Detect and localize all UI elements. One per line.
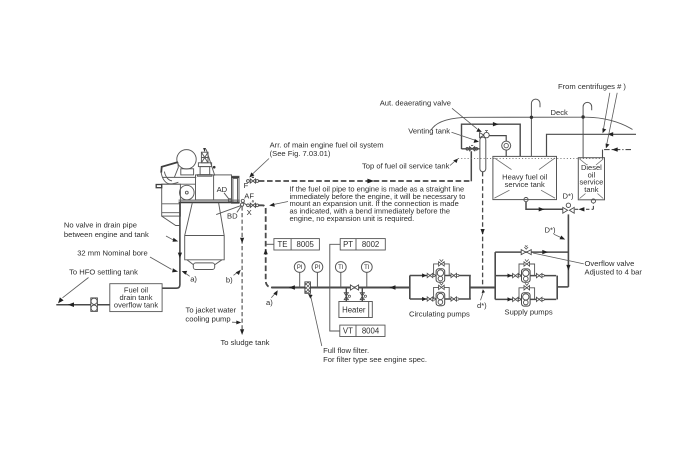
air scoop inner curve	[164, 172, 172, 181]
heater drop valve left	[344, 293, 348, 300]
svg-text:TE: TE	[278, 240, 288, 249]
svg-text:To jacket water: To jacket water	[186, 306, 237, 315]
BD leader	[237, 206, 241, 212]
fuel pipe stay	[206, 149, 215, 175]
svg-text:8004: 8004	[362, 327, 380, 336]
svg-text:8002: 8002	[362, 240, 379, 249]
overflow tank outlet pipe	[56, 304, 110, 306]
overflow valve spring	[524, 245, 528, 249]
32mm leader	[150, 257, 172, 269]
svg-text:Heater: Heater	[342, 305, 366, 314]
svg-text:Full flow filter.: Full flow filter.	[323, 346, 369, 355]
svg-text:a): a)	[266, 298, 273, 307]
svg-text:From centrifuges # ): From centrifuges # )	[558, 82, 626, 91]
arrow down on venting drain	[481, 229, 485, 235]
svg-text:BD: BD	[227, 211, 238, 220]
overflow leader line	[533, 253, 584, 264]
bell shoulder left	[187, 260, 193, 265]
HFO tank diagonals	[494, 158, 555, 198]
svg-text:Adjusted to 4 bar: Adjusted to 4 bar	[585, 267, 643, 276]
arrow left on DO filling line	[612, 147, 618, 151]
gauge ring on tank vent	[502, 141, 511, 150]
oil sump foot	[193, 263, 214, 270]
gauge TI 2	[361, 262, 372, 288]
svg-text:Top of fuel oil service tank: Top of fuel oil service tank	[362, 162, 450, 171]
bedplate band top	[179, 199, 240, 201]
no-valve leader	[166, 236, 173, 240]
settling leader	[63, 278, 89, 298]
svg-text:engine, no expansion unit is r: engine, no expansion unit is required.	[290, 214, 415, 223]
tower column	[200, 167, 210, 175]
svg-text:a): a)	[190, 275, 197, 284]
TE 8005 instrument box	[274, 239, 320, 250]
arr leader line	[253, 159, 270, 175]
heater drop pipe right	[361, 288, 363, 302]
right wall inner	[233, 178, 238, 202]
heavy fuel oil service tank	[493, 156, 557, 199]
svg-text:X: X	[247, 208, 252, 217]
DO filling line (dash-dot)	[603, 149, 632, 151]
ring to tank pipe	[505, 150, 507, 156]
jacket leader arrow	[236, 321, 241, 325]
arrow left on main line near circulating pumps	[389, 285, 395, 290]
arrow up on X riser	[264, 249, 268, 254]
a) leader arrow	[182, 271, 188, 275]
centrifuges leader 2	[607, 93, 617, 144]
deck junction dot 2	[581, 115, 584, 118]
diesel suction cross-over (dashed)	[575, 203, 594, 209]
junction leader line	[481, 292, 484, 300]
tank suction drop line	[567, 214, 569, 287]
aut. deaerating valve	[480, 131, 490, 138]
exhaust valve tower top cap	[203, 148, 206, 152]
tower base plate	[198, 175, 212, 177]
left lower slant	[162, 216, 181, 225]
svg-text:Deck: Deck	[551, 108, 569, 117]
deck junction dot 1	[530, 116, 533, 119]
gallery platform line	[162, 176, 196, 178]
AF to X link	[244, 202, 247, 205]
main fuel line to engine	[272, 287, 410, 289]
three-way valve D	[563, 207, 574, 213]
venting loop pipe	[462, 124, 521, 156]
svg-text:service tank: service tank	[505, 180, 545, 189]
right wall outer	[232, 176, 240, 203]
centrifuges leader 1 arrow	[602, 128, 606, 133]
expansion note paragraph	[290, 184, 466, 222]
svg-text:PI: PI	[315, 265, 321, 271]
main line between circulating and supply pumps	[470, 287, 495, 289]
svg-text:Circulating pumps: Circulating pumps	[409, 310, 470, 319]
svg-text:D*): D*)	[545, 225, 556, 234]
bedplate band bottom	[179, 201, 240, 203]
jacket leader	[232, 321, 237, 323]
paragraph leader arrow	[269, 203, 275, 207]
svg-text:Aut. deaerating valve: Aut. deaerating valve	[380, 98, 451, 107]
full flow filter (hatched)	[305, 282, 311, 293]
supply pump branch 2	[495, 283, 556, 306]
svg-text:b): b)	[226, 275, 233, 284]
deaerating valve outlet pipe	[489, 136, 506, 141]
arrow down on suction drop	[566, 265, 570, 271]
deaerating valve leader arrow	[476, 128, 482, 132]
tank level dotted line	[458, 158, 605, 160]
svg-text:32 mm Nominal bore: 32 mm Nominal bore	[77, 249, 147, 258]
pump end hub	[185, 191, 188, 194]
DO filling drop	[602, 150, 604, 158]
diagonal pipe to BD	[216, 206, 241, 215]
DO vent riser gooseneck	[583, 102, 592, 157]
arrow left on main line near filter	[289, 285, 295, 290]
svg-text:AF: AF	[244, 192, 254, 201]
engine main block	[196, 175, 232, 200]
air scoop top edge	[161, 162, 178, 173]
DO tank diagonals	[580, 159, 604, 199]
arrow left on HFO filling line	[607, 132, 613, 136]
top-of-tank leader arrow	[453, 159, 458, 164]
svg-text:between engine and tank: between engine and tank	[64, 230, 149, 239]
svg-text:PT: PT	[343, 240, 353, 249]
HFO vent riser gooseneck	[531, 99, 540, 156]
no-valve leader arrow	[173, 238, 179, 242]
exhaust valve tower body	[201, 152, 208, 163]
engine drain pipe b (dashed to sludge)	[241, 206, 243, 330]
venting tank inlet pipe	[462, 148, 480, 150]
supply pump branch 1	[495, 259, 556, 282]
arrow left on outlet pipe	[68, 302, 74, 307]
PT/VT sensing line	[330, 244, 340, 331]
circulating pumps left manifold	[409, 276, 411, 300]
svg-text:To HFO settling tank: To HFO settling tank	[69, 268, 138, 277]
supply pumps right manifold	[556, 276, 558, 300]
PT 8002 instrument box	[340, 239, 385, 250]
arrow down on drain pipe a	[178, 253, 182, 259]
deck curve	[431, 117, 632, 130]
b) leader arrow	[236, 270, 241, 275]
sight glass symbol	[91, 298, 98, 312]
AD leader	[224, 193, 229, 199]
circulating pump branch 2	[410, 283, 471, 306]
svg-text:No valve in drain pipe: No valve in drain pipe	[64, 221, 137, 230]
HFO filling line from centrifuges	[547, 134, 637, 156]
side nub	[156, 185, 162, 188]
main line bypass valve	[350, 285, 358, 290]
filter leader line	[311, 297, 322, 346]
supply discharge stub	[557, 286, 568, 288]
coupling F (expansion joint at engine outlet F)	[247, 176, 259, 207]
svg-text:(See Fig. 7.03.01): (See Fig. 7.03.01)	[270, 149, 331, 158]
engine: main engine side view	[156, 148, 246, 270]
supply pumps left manifold	[494, 252, 496, 299]
gauge PI 1	[294, 262, 305, 288]
diesel tank outlet circle	[591, 199, 595, 203]
arrow right on overflow line	[542, 250, 548, 254]
arrow down end on pipe b	[240, 329, 244, 335]
D*) lower leader	[554, 234, 561, 237]
circulating pumps right manifold	[469, 276, 471, 300]
TE tap line	[266, 243, 274, 245]
right wall top edge	[232, 176, 240, 178]
BD connection circle	[241, 203, 244, 206]
bell shoulder right	[215, 260, 222, 265]
gauge ring inner	[504, 143, 508, 147]
VT 8004 instrument box	[340, 325, 385, 336]
venting tank	[480, 137, 486, 172]
svg-text:overflow tank: overflow tank	[114, 301, 158, 310]
pipe: engine inlet X line (dashed)	[259, 205, 273, 287]
block divider	[213, 175, 215, 200]
a) corner leader	[271, 293, 275, 298]
deaerating valve leader	[452, 108, 477, 129]
32mm leader arrow	[172, 268, 178, 272]
gauge PI 2	[312, 262, 323, 288]
heater drop valve right	[360, 293, 364, 300]
HFO tank outlet pipe	[526, 202, 563, 210]
a) leader	[186, 274, 190, 277]
arrow down mid on pipe b	[240, 238, 244, 244]
AD connection circle	[228, 199, 231, 202]
AF connection circle	[241, 199, 244, 202]
svg-text:cooling pump: cooling pump	[185, 315, 230, 324]
venting tank leader	[452, 132, 475, 140]
tower cross brace 1	[201, 152, 208, 163]
left face shelf 1	[162, 203, 181, 205]
three-way valve handle circle	[566, 203, 570, 207]
svg-text:AD: AD	[217, 185, 228, 194]
D*) lower leader arrow	[560, 236, 566, 240]
overflow valve (relief)	[521, 250, 531, 255]
coupling on venting inlet	[466, 145, 478, 151]
svg-text:Venting tank: Venting tank	[408, 127, 450, 136]
a) corner leader arrow	[273, 290, 277, 296]
pipe: riser from F line to venting valve	[470, 151, 472, 181]
pipe: fuel return F line (dashed to venting)	[259, 180, 472, 182]
svg-text:Supply pumps: Supply pumps	[505, 308, 553, 317]
svg-text:d*): d*)	[477, 301, 487, 310]
svg-text:For filter type see engine spe: For filter type see engine spec.	[323, 355, 427, 364]
overflow return line	[495, 251, 568, 253]
svg-text:TI: TI	[338, 265, 344, 271]
svg-text:tank: tank	[584, 185, 598, 194]
pump end circle	[180, 185, 195, 200]
circulating pump branch 1	[410, 259, 471, 282]
left face shelf 2	[162, 212, 181, 214]
arrow right on venting loop	[493, 122, 499, 126]
svg-text:PI: PI	[297, 265, 303, 271]
centrifuges leader 1	[604, 93, 610, 129]
coupling X (expansion joint at engine inlet X)	[247, 200, 259, 207]
svg-text:To sludge tank: To sludge tank	[221, 338, 270, 347]
gauge TI 1	[335, 262, 346, 288]
arrow on F line	[367, 179, 374, 184]
heater box	[339, 302, 372, 318]
junction leader arrow d	[482, 289, 485, 293]
svg-text:VT: VT	[343, 327, 353, 336]
turbocharger circle	[177, 150, 196, 169]
top-of-tank leader	[450, 162, 455, 166]
svg-text:TI: TI	[364, 265, 370, 271]
arrow right on outlet pipe	[539, 207, 545, 211]
svg-text:D*): D*)	[563, 192, 574, 201]
heater drop pipe left	[345, 288, 347, 302]
left face block	[162, 184, 181, 216]
venting tank leader arrow	[474, 139, 479, 143]
engine top deck line	[162, 183, 196, 185]
arrow left on cross-over	[578, 207, 584, 211]
engine drain pipe a	[162, 203, 180, 289]
svg-text:8005: 8005	[297, 240, 315, 249]
b) leader	[234, 273, 238, 276]
settling leader arrow	[58, 297, 64, 303]
centrifuges leader 2 arrow	[606, 144, 610, 149]
paragraph leader line	[274, 202, 289, 205]
fuel pipe union dot	[213, 166, 216, 169]
tower base flange	[198, 163, 211, 167]
fuel oil drain tank overflow tank box	[110, 284, 162, 312]
crankcase bell	[185, 203, 225, 260]
turbocharger pedestal	[181, 169, 194, 175]
filter leader arrow	[308, 294, 313, 299]
heater drop valve left handle	[348, 295, 350, 297]
diesel oil service tank	[578, 158, 604, 200]
heater drop valve right handle	[364, 295, 366, 297]
HFO tank outlet circle	[524, 198, 528, 202]
air scoop horn	[161, 173, 178, 184]
bell waist line	[185, 235, 225, 237]
venting tank drain line (dashed)	[482, 172, 484, 288]
air scoop right edge	[175, 162, 179, 177]
arr leader arrow	[249, 172, 254, 177]
